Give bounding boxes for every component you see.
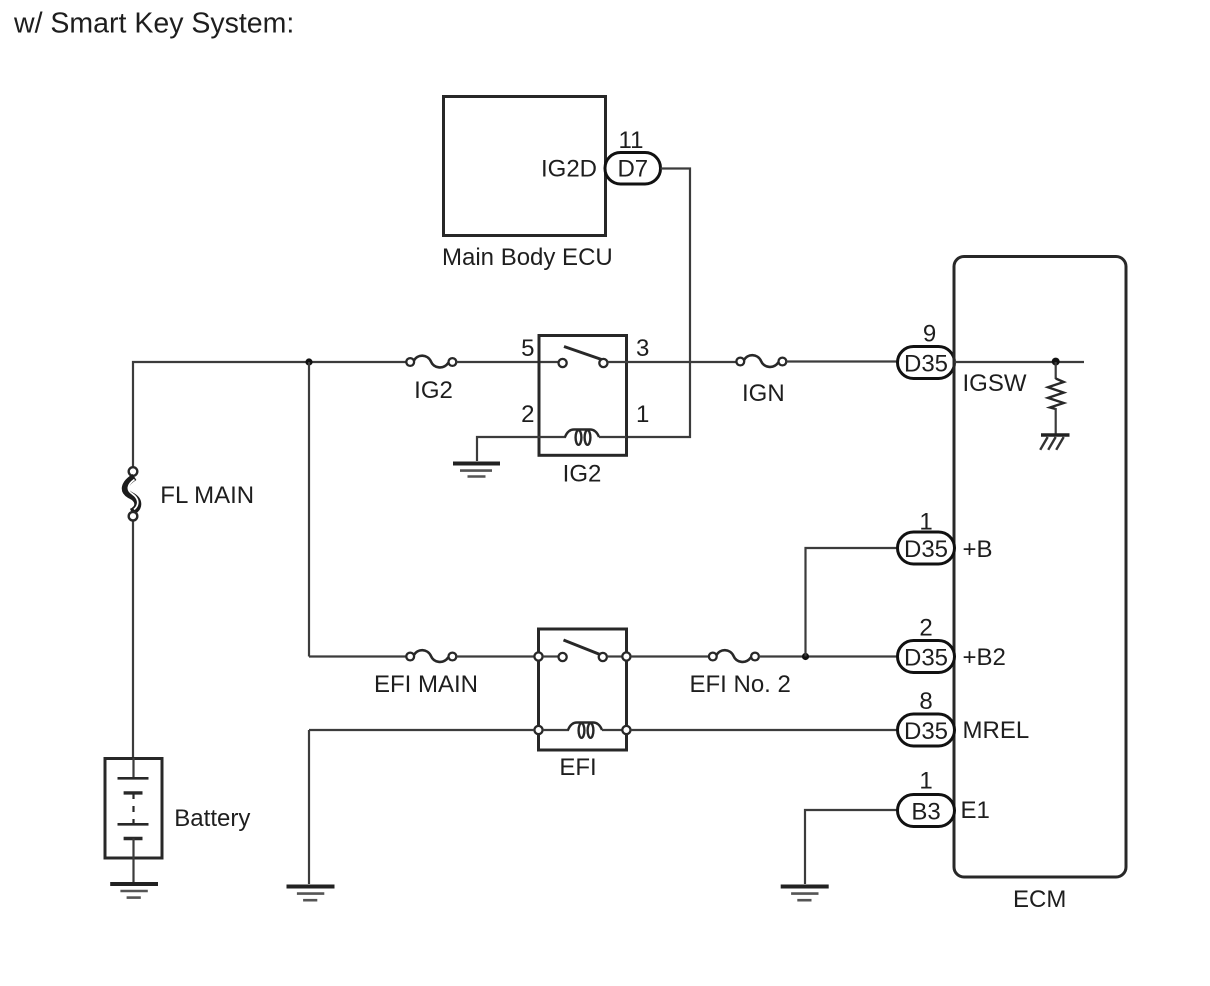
relay EFI coil — [543, 723, 623, 738]
svg-text:+B: +B — [963, 536, 993, 563]
resistor (ECM internal pull-down) — [1048, 379, 1064, 410]
wire EFI branch vertical from node — [308, 362, 310, 657]
wire E1 to ground — [805, 810, 898, 884]
connector D35 (IGSW) — [898, 347, 955, 379]
svg-text:11: 11 — [619, 127, 644, 154]
wire — [543, 655, 559, 657]
ECM box — [954, 257, 1126, 878]
relay EFI contact — [559, 653, 567, 661]
svg-text:D35: D35 — [904, 350, 948, 377]
wire MREL vertical to ground — [308, 730, 310, 884]
svg-text:5: 5 — [521, 335, 534, 362]
node dot IGSW resistor — [1052, 358, 1060, 366]
svg-text:IG2D: IG2D — [541, 156, 597, 183]
svg-text:EFI No. 2: EFI No. 2 — [690, 671, 791, 698]
wire IGSW internal — [955, 361, 1085, 363]
connector D35 (+B) — [898, 532, 955, 564]
wire main row to IG2 fuse — [309, 361, 407, 363]
relay IG2 box — [539, 336, 627, 456]
relay EFI coil terminal — [622, 726, 630, 734]
relay EFI coil terminal — [534, 726, 542, 734]
wire junction up to +B — [806, 548, 898, 657]
svg-text:Battery: Battery — [174, 805, 250, 832]
svg-text:9: 9 — [923, 321, 936, 348]
svg-text:+B2: +B2 — [963, 644, 1006, 671]
wire relay EFI coil to MREL — [631, 729, 898, 731]
relay EFI terminal — [534, 652, 542, 660]
svg-text:FL MAIN: FL MAIN — [160, 482, 254, 509]
svg-text:w/ Smart Key System:: w/ Smart Key System: — [13, 8, 294, 40]
node junction dot — [305, 358, 312, 365]
fuse EFI MAIN — [406, 650, 456, 662]
wire fuse IG2 to relay contact — [456, 361, 558, 363]
Main Body ECU box — [444, 97, 606, 236]
svg-text:1: 1 — [636, 401, 649, 428]
relay IG2 contact — [599, 359, 607, 367]
svg-text:IGN: IGN — [742, 380, 785, 407]
connector B3 (E1) — [898, 795, 955, 827]
wire relay coil pin 2 to ground — [477, 437, 539, 461]
wire IGN fuse to D35 pin 9 — [786, 360, 897, 362]
wire — [133, 362, 309, 468]
fuse IGN — [736, 355, 786, 367]
node junction dot (+B branch) — [802, 653, 809, 660]
svg-text:3: 3 — [636, 335, 649, 362]
svg-text:8: 8 — [919, 688, 932, 715]
wire left trunk upper (battery feed to main node) — [132, 520, 134, 758]
svg-text:IG2: IG2 — [563, 461, 602, 488]
svg-text:Main Body ECU: Main Body ECU — [442, 244, 613, 271]
svg-text:IGSW: IGSW — [963, 370, 1027, 397]
chassis ground (ECM internal) — [1040, 435, 1069, 450]
svg-text:E1: E1 — [961, 797, 990, 824]
svg-text:D7: D7 — [617, 156, 648, 183]
relay EFI switch blade — [564, 640, 601, 655]
wire D7 to IG2 relay coil pin 1 — [628, 169, 690, 438]
svg-text:D35: D35 — [904, 718, 948, 745]
ground (battery) — [110, 884, 158, 898]
wire fuse to +B2 — [759, 655, 898, 657]
relay IG2 switch blade — [564, 347, 605, 361]
svg-text:2: 2 — [919, 615, 932, 642]
wire relay EFI to fuse EFI No. 2 — [631, 655, 709, 657]
wire to EFI MAIN fuse — [309, 655, 407, 657]
connector D35 (MREL) — [898, 714, 955, 746]
fuse IG2 — [406, 356, 456, 368]
fusible link FL MAIN — [125, 467, 138, 520]
wire MREL row — [309, 729, 535, 731]
svg-text:2: 2 — [521, 401, 534, 428]
svg-text:IG2: IG2 — [414, 377, 453, 404]
relay IG2 coil — [539, 430, 627, 445]
svg-text:D35: D35 — [904, 536, 948, 563]
svg-text:EFI MAIN: EFI MAIN — [374, 671, 478, 698]
wire — [1055, 408, 1057, 434]
relay IG2 contact — [559, 359, 567, 367]
wire relay pin 3 to IGN fuse — [608, 361, 737, 363]
svg-text:MREL: MREL — [963, 717, 1030, 744]
fuse EFI No. 2 — [709, 650, 759, 662]
svg-text:ECM: ECM — [1013, 886, 1066, 913]
wire — [1055, 362, 1057, 379]
relay EFI terminal — [622, 652, 630, 660]
ground (relay IG2 coil) — [453, 464, 500, 477]
relay EFI contact — [599, 653, 607, 661]
wire — [607, 655, 622, 657]
svg-text:B3: B3 — [911, 798, 940, 825]
relay EFI box — [539, 629, 627, 750]
wire fuse to relay EFI — [456, 655, 534, 657]
connector D7 — [605, 153, 661, 185]
ground (E1) — [781, 887, 829, 901]
battery — [105, 758, 162, 882]
ground (EFI relay coil) — [287, 887, 335, 901]
svg-text:EFI: EFI — [559, 754, 596, 781]
connector D35 (+B2) — [898, 641, 955, 673]
svg-text:D35: D35 — [904, 644, 948, 671]
svg-text:1: 1 — [919, 768, 932, 795]
